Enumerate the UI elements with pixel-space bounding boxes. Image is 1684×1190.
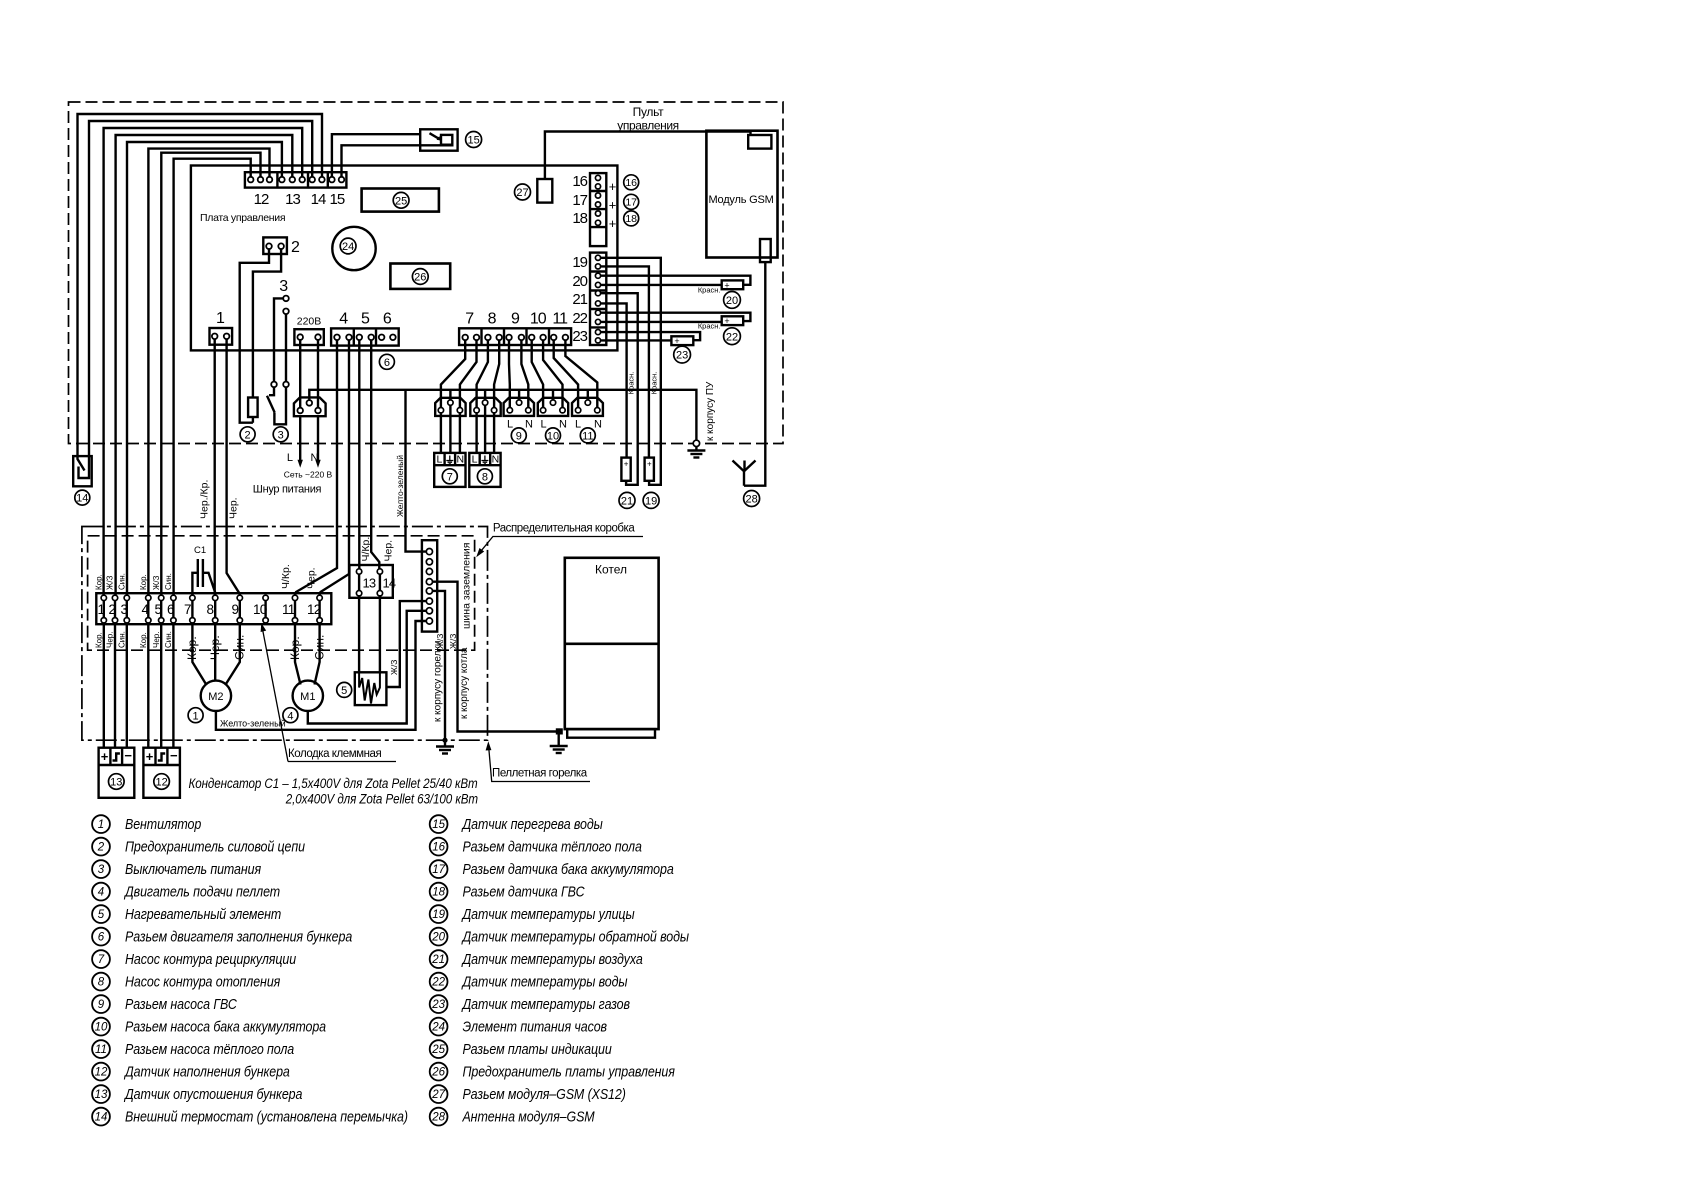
svg-text:5: 5 xyxy=(361,311,370,328)
svg-text:23: 23 xyxy=(431,999,445,1011)
designator circle 27 xyxy=(515,184,531,200)
svg-text:Красн.: Красн. xyxy=(698,322,721,331)
svg-text:13: 13 xyxy=(285,191,300,208)
svg-text:Ж/З: Ж/З xyxy=(106,575,115,590)
svg-text:26: 26 xyxy=(414,272,426,284)
designator circle 3 xyxy=(273,427,288,442)
svg-text:Предохранитель силовой цепи: Предохранитель силовой цепи xyxy=(125,838,305,854)
svg-text:12: 12 xyxy=(254,191,269,208)
svg-text:Чер./Кр.: Чер./Кр. xyxy=(199,480,211,519)
plug7 earth pin symbol xyxy=(446,456,453,464)
recirculation pump plug P7 xyxy=(434,453,465,487)
label Пеллетная горелка with leader arrow xyxy=(486,741,590,781)
net labels L N under sockets 9 10 11 xyxy=(507,419,602,431)
svg-text:Элемент питания часов: Элемент питания часов xyxy=(462,1018,606,1034)
value label Красн. (20) xyxy=(698,286,721,295)
clock battery B24 xyxy=(332,227,375,270)
pin number 1 xyxy=(216,310,225,327)
svg-text:7: 7 xyxy=(447,471,453,483)
svg-text:8: 8 xyxy=(482,471,488,483)
wire labels below terminals 1-6 xyxy=(95,631,174,648)
svg-text:28: 28 xyxy=(431,1112,445,1124)
svg-text:L: L xyxy=(541,419,547,431)
pins of block 16-18 xyxy=(595,175,600,225)
svg-text:12: 12 xyxy=(307,602,321,617)
svg-text:6: 6 xyxy=(98,932,105,944)
connector block 19-23 on board xyxy=(590,253,606,345)
svg-text:N: N xyxy=(594,419,602,431)
PE stub socket9 xyxy=(518,390,520,400)
svg-text:14: 14 xyxy=(76,493,88,505)
svg-text:6: 6 xyxy=(167,602,174,617)
GSM module box (Модуль GSM) xyxy=(706,131,777,262)
wire label Ч/Кр. (to 13) xyxy=(360,537,372,562)
svg-text:N: N xyxy=(311,452,319,464)
heating element EK5 (Нагревательный элемент) xyxy=(355,672,387,705)
net label к корпусу ПУ xyxy=(705,381,716,441)
designator circle 15 xyxy=(466,132,482,148)
svg-text:Разьем модуля–GSM (ХS12): Разьем модуля–GSM (ХS12) xyxy=(462,1086,625,1102)
terminal strip 12-15 on board top xyxy=(245,172,347,187)
ground symbol boiler case xyxy=(550,735,568,754)
PE wire M2 to earth bus (Желто-зеленый) xyxy=(216,621,426,730)
designator circle 26 xyxy=(412,269,428,285)
ground symbol burner case xyxy=(436,740,454,753)
svg-text:9: 9 xyxy=(232,602,239,617)
PE wire to control panel case xyxy=(309,390,696,440)
svg-text:14: 14 xyxy=(383,576,396,591)
svg-text:5: 5 xyxy=(155,602,162,617)
svg-text:24: 24 xyxy=(431,1022,445,1034)
wire block2 pin b through fuse xyxy=(253,249,281,423)
svg-text:Сеть ~220 В: Сеть ~220 В xyxy=(284,470,333,480)
svg-text:23: 23 xyxy=(676,350,688,362)
svg-text:3: 3 xyxy=(98,864,105,876)
legend left column texts xyxy=(123,816,408,1125)
svg-text:14: 14 xyxy=(95,1112,108,1124)
svg-text:Ж/З: Ж/З xyxy=(448,634,458,649)
legend left column numbers xyxy=(95,819,108,1123)
svg-text:Желто-зеленый: Желто-зеленый xyxy=(220,719,286,729)
wire pin23b to sensor 23 xyxy=(601,339,672,341)
wire pin19b down to sensor 19 xyxy=(601,266,649,457)
svg-text:L: L xyxy=(472,454,478,466)
svg-text:Предохранитель платы управлени: Предохранитель платы управления xyxy=(462,1063,675,1079)
pin numbers 12 13 14 15 xyxy=(254,191,345,208)
wire terminal8 to fan M2 xyxy=(214,623,216,681)
wire strip7a to socket7 L xyxy=(441,340,465,407)
value note Конденсатор C1 xyxy=(188,775,478,807)
wire terminal9 to fan M2 xyxy=(226,623,240,685)
svg-text:8: 8 xyxy=(207,602,214,617)
svg-text:Кор.: Кор. xyxy=(139,574,148,590)
pin numbers 7 8 9 10 11 xyxy=(465,311,568,328)
wire label Чер. xyxy=(228,497,240,519)
svg-text:С1: С1 xyxy=(194,545,206,556)
svg-text:1: 1 xyxy=(193,710,199,722)
svg-text:N: N xyxy=(525,419,533,431)
designator circle 25 xyxy=(393,192,409,208)
legend right column numbers xyxy=(431,819,445,1123)
wire pin22a to sensor 22 (wrap right) xyxy=(601,313,751,321)
designator circle 11 xyxy=(580,428,595,443)
svg-text:к корпусу ПУ: к корпусу ПУ xyxy=(705,381,716,441)
svg-text:+: + xyxy=(146,749,154,764)
svg-text:16: 16 xyxy=(432,842,445,854)
pins of block 19-23 xyxy=(595,255,600,343)
svg-text:18: 18 xyxy=(432,887,445,899)
pin labels 16 17 18 and polarity + xyxy=(572,173,587,227)
svg-text:15: 15 xyxy=(432,819,445,831)
pellet burner boundary (Пеллетная горелка) dash-dot box xyxy=(82,527,488,741)
polarity symbols block 13 xyxy=(101,748,133,764)
svg-text:21: 21 xyxy=(431,954,445,966)
wire strip8a to socket8 L xyxy=(477,340,488,407)
svg-text:13: 13 xyxy=(95,1089,108,1101)
designator circle 1 xyxy=(188,708,203,723)
svg-text:8: 8 xyxy=(488,311,497,328)
wire 8 xyxy=(174,159,251,595)
PE wire heater to earth bus xyxy=(386,601,426,687)
svg-text:+: + xyxy=(724,280,729,290)
svg-text:2: 2 xyxy=(109,602,116,617)
designator circle 22 xyxy=(724,328,741,345)
PE stub socket8 xyxy=(484,390,486,400)
svg-text:Конденсатор С1 – 1,5х400V д: Конденсатор С1 – 1,5х400V для Zota Pelle… xyxy=(188,775,477,791)
pins of strip 12-15 xyxy=(248,177,344,183)
svg-text:Двигатель подачи пеллет: Двигатель подачи пеллет xyxy=(123,883,280,899)
svg-text:Датчик опустошения бункера: Датчик опустошения бункера xyxy=(123,1086,303,1102)
svg-text:21: 21 xyxy=(621,496,633,508)
svg-text:Кор.: Кор. xyxy=(139,632,148,648)
designator circle 13 xyxy=(109,774,125,790)
pump socket X10 xyxy=(538,398,568,416)
svg-text:2: 2 xyxy=(291,239,300,256)
svg-text:Пеллетная горелка: Пеллетная горелка xyxy=(492,768,588,780)
control panel enclosure (Пульт управления) dashed box xyxy=(69,102,784,444)
svg-text:8: 8 xyxy=(98,977,105,989)
svg-text:1: 1 xyxy=(216,310,225,327)
designator circle 7 xyxy=(442,469,457,484)
polarity symbols block 12 xyxy=(146,748,178,764)
svg-text:Датчик перегрева воды: Датчик перегрева воды xyxy=(461,816,603,832)
svg-text:Вентилятор: Вентилятор xyxy=(125,816,202,832)
wire strip10a to socket10 L xyxy=(532,340,543,407)
fuse F2 (Предохранитель силовой цепи) xyxy=(248,398,258,418)
pin numbers 4 5 6 xyxy=(339,311,392,328)
wires relay block to heater xyxy=(359,574,380,672)
wire terminal7 to fan M2 xyxy=(192,623,206,685)
svg-text:Датчик температуры улицы: Датчик температуры улицы xyxy=(461,906,635,922)
pump socket X11 xyxy=(572,398,603,416)
wire strip15b to S15 xyxy=(342,145,453,177)
svg-text:Датчик температуры газов: Датчик температуры газов xyxy=(461,996,630,1012)
wire label Ж/З (heater PE) xyxy=(389,660,399,675)
external thermostat S14 xyxy=(73,456,92,486)
svg-text:9: 9 xyxy=(98,999,105,1011)
wire labels above terminals 11 12 xyxy=(280,564,318,589)
wire terminal1 wire from board pin1a xyxy=(213,339,215,595)
earth bus (шина заземления) xyxy=(422,540,437,631)
svg-text:2: 2 xyxy=(97,842,105,854)
svg-text:L: L xyxy=(507,419,513,431)
fan motor M2 xyxy=(201,681,231,711)
wire earth bus to burner body ground xyxy=(433,591,446,740)
wire labels below terminals 7 8 9 xyxy=(185,635,247,660)
svg-text:Син.: Син. xyxy=(118,631,127,648)
wire 220В L to power socket xyxy=(299,340,301,408)
wires terminals 1-3 to sensor block 13 xyxy=(104,623,127,748)
hopper empty sensor block (13) xyxy=(99,748,135,798)
svg-text:Распределительная коробка: Распределительная коробка xyxy=(493,523,635,535)
wire bundle left: wire 1 xyxy=(78,114,323,456)
svg-text:+: + xyxy=(724,316,729,326)
air temperature sensor S21 xyxy=(621,458,630,481)
wire label Желто-зеленый (PE drop) xyxy=(395,455,405,517)
pin labels 19-23 xyxy=(572,254,587,345)
designator circle 6 xyxy=(379,354,394,369)
wire earth bus to boiler body xyxy=(433,582,557,732)
svg-text:Модуль GSM: Модуль GSM xyxy=(708,194,773,206)
wire 2 xyxy=(89,121,312,456)
relay terminal block 13/14 xyxy=(349,565,392,598)
svg-text:22: 22 xyxy=(431,977,445,989)
svg-text:+: + xyxy=(609,179,617,194)
svg-text:11: 11 xyxy=(582,431,593,443)
PE wire M1 to earth bus xyxy=(308,611,426,724)
svg-text:9: 9 xyxy=(516,431,522,443)
node label Плата управления xyxy=(200,212,285,224)
svg-text:6: 6 xyxy=(384,357,390,369)
svg-text:Красн.: Красн. xyxy=(698,286,721,295)
wire label Чер. (to 14) xyxy=(383,540,395,562)
board pins 3 (power switch header) xyxy=(279,278,288,295)
svg-text:−: − xyxy=(170,748,178,763)
node label Пульт управления xyxy=(617,105,678,133)
designator circle 5 xyxy=(337,682,352,697)
wire label Чер./Кр. xyxy=(199,480,211,519)
jumper on terminal 10 xyxy=(264,601,266,618)
svg-text:20: 20 xyxy=(431,932,445,944)
svg-text:3: 3 xyxy=(279,278,288,295)
pump socket X9 xyxy=(504,398,534,416)
legend right column circles xyxy=(430,815,448,1125)
svg-text:10: 10 xyxy=(530,311,547,328)
svg-text:L: L xyxy=(436,454,442,466)
PE stub socket10 xyxy=(552,390,554,400)
connector X27 (Разъем модуля-GSM XS12) xyxy=(537,179,552,203)
svg-text:17: 17 xyxy=(572,192,587,209)
net labels L N xyxy=(287,452,319,464)
wire pin22b to sensor 22 xyxy=(601,321,722,323)
wire pin21a down to sensor 21 loop xyxy=(601,293,638,485)
wire label Желто-зеленый xyxy=(220,719,286,729)
designator circle 8 xyxy=(477,469,492,484)
board terminal 220В xyxy=(294,329,323,345)
wire strip10b to socket10 N xyxy=(543,340,562,407)
svg-text:+: + xyxy=(647,460,652,469)
svg-text:к корпусу горелки: к корпусу горелки xyxy=(433,641,444,722)
PE stub socket11 xyxy=(587,390,589,400)
plug8 earth pin symbol xyxy=(481,456,488,464)
designator circle 9 xyxy=(511,428,526,443)
gas temperature sensor S23 xyxy=(671,336,693,346)
svg-text:2,0х400V для Zota Pellet 63/10: 2,0х400V для Zota Pellet 63/100 кВт xyxy=(285,790,478,806)
pin number 2 xyxy=(291,239,300,256)
overheat sensor S15 (Датчик перегрева воды) xyxy=(420,129,457,150)
wire pin20a to sensor 20 (wrap right) xyxy=(601,276,751,285)
svg-text:10: 10 xyxy=(253,602,267,617)
svg-text:11: 11 xyxy=(282,602,295,617)
designator circle 21 xyxy=(619,492,635,508)
junction dot burner ground xyxy=(442,738,447,743)
wire strip11a to socket11 L xyxy=(554,340,578,407)
terminal block (Колодка клеммная) xyxy=(96,593,331,624)
pellet feed motor M1 xyxy=(293,681,323,711)
value label Красн. (22) xyxy=(698,322,721,331)
svg-text:L: L xyxy=(287,452,293,464)
svg-text:19: 19 xyxy=(432,909,445,921)
svg-text:М2: М2 xyxy=(208,691,223,703)
svg-text:Плата управления: Плата управления xyxy=(200,212,285,224)
svg-text:15: 15 xyxy=(467,135,479,147)
designator circle 24 xyxy=(340,238,356,254)
svg-text:Син.: Син. xyxy=(164,573,173,590)
heating pump plug P8 xyxy=(469,453,500,487)
wire from board pin1b to terminal 9 xyxy=(227,339,240,595)
wire block5b to relay block 14 xyxy=(371,340,379,568)
svg-text:20: 20 xyxy=(726,295,738,307)
display connector X25 xyxy=(362,189,439,212)
wire strip11b to socket11 N xyxy=(565,340,597,407)
value label C1 xyxy=(194,545,206,556)
terminal pins bottom row xyxy=(101,618,322,623)
ground node at control panel case xyxy=(693,440,699,446)
svg-text:220В: 220В xyxy=(297,316,322,328)
svg-text:к корпусу котла: к корпусу котла xyxy=(459,647,470,719)
node label Шнур питания xyxy=(253,484,322,496)
svg-text:19: 19 xyxy=(572,254,587,271)
svg-text:Колодка клеммная: Колодка клеммная xyxy=(288,748,381,760)
value label Красн. vertical (wire 19) xyxy=(650,372,659,395)
terminal pin through-links xyxy=(104,601,320,618)
net label к корпусу котла xyxy=(459,647,470,719)
svg-text:1: 1 xyxy=(98,819,104,831)
wires terminals 4-6 to sensor block 12 xyxy=(148,623,173,748)
wire labels Ж/З on ground wires xyxy=(435,634,458,649)
svg-text:N: N xyxy=(457,454,465,466)
designator circle 19 xyxy=(643,492,659,508)
svg-text:Чер.: Чер. xyxy=(152,632,161,648)
svg-text:Разьем насоса ГВС: Разьем насоса ГВС xyxy=(125,996,238,1012)
designator circle 28 xyxy=(744,491,760,507)
PE drop wire to earth bus xyxy=(406,390,427,552)
net label шина заземления xyxy=(461,543,473,629)
svg-text:27: 27 xyxy=(431,1089,445,1101)
svg-text:+: + xyxy=(609,198,617,213)
svg-text:4: 4 xyxy=(339,311,348,328)
svg-text:Выключатель питания: Выключатель питания xyxy=(125,861,262,877)
svg-text:+: + xyxy=(674,336,679,346)
wire pin3b to switch xyxy=(285,314,287,382)
wires socket8 to plug8 xyxy=(477,405,495,453)
svg-text:+: + xyxy=(624,460,629,469)
svg-text:16: 16 xyxy=(625,177,637,189)
svg-text:Датчик температуры обратной во: Датчик температуры обратной воды xyxy=(461,928,689,944)
svg-text:3: 3 xyxy=(278,429,284,441)
svg-text:20: 20 xyxy=(572,273,587,290)
svg-text:Син.: Син. xyxy=(118,573,127,590)
svg-text:Нагревательный элемент: Нагревательный элемент xyxy=(125,906,281,922)
svg-text:Разьем насоса тёплого пола: Разьем насоса тёплого пола xyxy=(125,1041,295,1057)
svg-text:Шнур питания: Шнур питания xyxy=(253,484,322,496)
control board (Плата управления) outline xyxy=(191,166,618,351)
board connector 2 (jumper block) xyxy=(263,237,287,254)
temperature sensor S22 xyxy=(722,316,744,326)
svg-text:М1: М1 xyxy=(300,691,315,703)
svg-text:Насос контура рециркуляции: Насос контура рециркуляции xyxy=(125,951,296,967)
svg-text:Ж/З: Ж/З xyxy=(152,575,161,590)
svg-text:Чер.: Чер. xyxy=(383,540,395,562)
wire block5a to relay block 13 xyxy=(358,340,360,568)
designator circle 12 xyxy=(154,774,170,790)
designator circle 2 xyxy=(240,427,255,442)
svg-text:5: 5 xyxy=(98,909,105,921)
svg-text:6: 6 xyxy=(383,311,392,328)
svg-text:27: 27 xyxy=(516,187,528,199)
wire labels above terminals 1-6 xyxy=(95,573,174,590)
svg-text:Разьем датчика ГВС: Разьем датчика ГВС xyxy=(462,883,585,899)
wire GSM to antenna xyxy=(744,262,765,486)
legend right column texts xyxy=(461,816,689,1125)
svg-text:14: 14 xyxy=(311,191,326,208)
capacitor C1 xyxy=(192,559,215,595)
wire strip15a to S15 xyxy=(332,134,420,176)
svg-text:Пульт: Пульт xyxy=(633,105,664,119)
designator circle 23 xyxy=(674,346,691,363)
wire strip7b to socket7 N xyxy=(460,340,477,407)
wire 5 xyxy=(127,142,282,595)
wire strip8b to socket8 N xyxy=(494,340,499,407)
temperature sensor S20 xyxy=(722,280,744,290)
svg-text:1: 1 xyxy=(98,602,105,617)
svg-text:−: − xyxy=(124,748,132,763)
svg-text:шина заземления: шина заземления xyxy=(461,543,473,629)
wire block4a to terminal 11 xyxy=(295,340,337,595)
pin labels 13 14 xyxy=(363,576,396,591)
wire 4 xyxy=(116,135,293,595)
svg-text:5: 5 xyxy=(341,685,347,697)
svg-text:25: 25 xyxy=(431,1044,445,1056)
svg-text:N: N xyxy=(492,454,500,466)
legend left column circles xyxy=(92,815,110,1125)
svg-text:Насос контура отопления: Насос контура отопления xyxy=(125,973,281,989)
svg-text:+: + xyxy=(609,216,617,231)
wire pin21b down to sensor 21 xyxy=(601,303,627,457)
wire labels below terminals 11 12 xyxy=(288,635,327,660)
svg-text:Разьем датчика бака аккумулято: Разьем датчика бака аккумулятора xyxy=(462,861,674,877)
svg-text:7: 7 xyxy=(184,602,191,617)
hopper full sensor block (12) xyxy=(143,748,180,798)
svg-text:+: + xyxy=(101,749,109,764)
svg-text:7: 7 xyxy=(465,311,474,328)
svg-text:N: N xyxy=(559,419,567,431)
svg-text:Кор.: Кор. xyxy=(95,574,104,590)
designator circle 10 xyxy=(546,428,561,443)
svg-text:22: 22 xyxy=(572,310,587,327)
wire strip9b to socket9 N xyxy=(521,340,528,407)
wire pin20b to sensor 20 xyxy=(601,284,722,286)
